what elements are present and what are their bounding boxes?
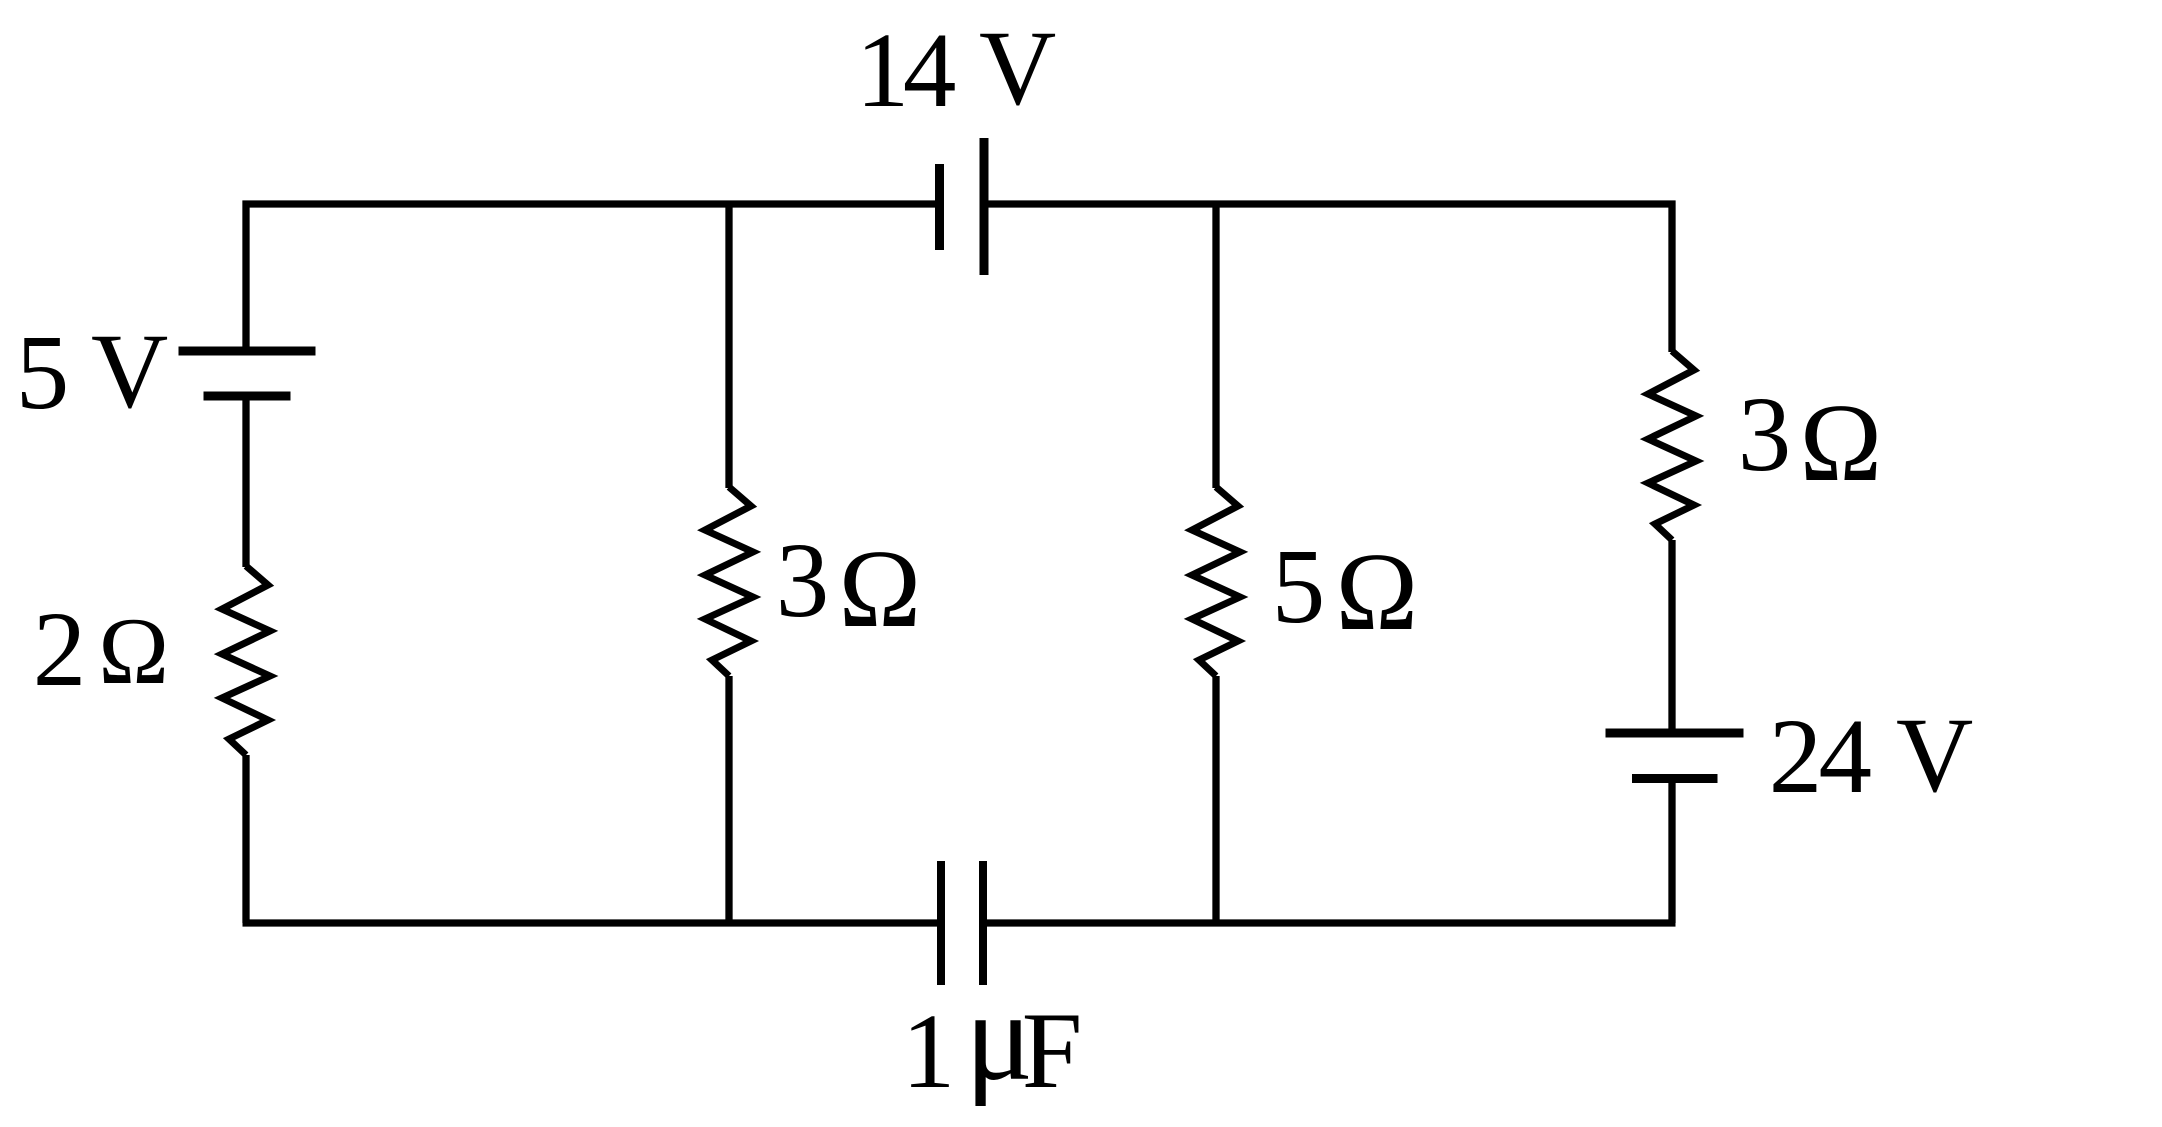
- label 5 V (left battery): [16, 313, 168, 432]
- resistor 3 ohm (middle-left branch): [705, 487, 753, 676]
- wire right middle (3-ohm resistor to 24V battery): [1668, 540, 1675, 733]
- resistor 3 ohm (right branch): [1648, 351, 1696, 540]
- svg-text:1: 1: [856, 12, 910, 130]
- wire middle-right branch upper (top wire to 5-ohm resistor): [1212, 204, 1219, 488]
- capacitor 1 uF : right plate: [979, 861, 987, 985]
- capacitor 1 uF : left plate: [937, 861, 945, 985]
- wire left middle (5V battery to 2-ohm resistor): [242, 396, 249, 567]
- label 1 uF (capacitor): [902, 967, 1083, 1111]
- wire middle-left branch lower (3-ohm resistor to bottom wire): [725, 676, 732, 923]
- svg-text:Ω: Ω: [839, 528, 922, 651]
- battery 5 V : long plate (top): [179, 347, 316, 356]
- wire top-right segment: [984, 200, 1676, 207]
- label 3 ohm (middle-left resistor): [776, 522, 921, 651]
- svg-text:5: 5: [1272, 528, 1326, 646]
- resistor 2 ohm (left branch): [222, 566, 270, 755]
- svg-text:4: 4: [1819, 698, 1873, 816]
- svg-text:2: 2: [1769, 698, 1823, 816]
- resistor 5 ohm (middle-right branch): [1192, 487, 1240, 676]
- battery 14 V : short plate (left): [935, 164, 944, 250]
- battery 24 V : long plate (top): [1606, 729, 1744, 738]
- wire right upper (corner to 3-ohm resistor): [1668, 201, 1675, 353]
- label 3 ohm (right resistor): [1738, 376, 1882, 505]
- svg-text:1: 1: [902, 993, 956, 1111]
- wire middle-right branch lower (5-ohm resistor to bottom wire): [1212, 676, 1219, 923]
- label 2 ohm (left resistor): [33, 591, 169, 709]
- wire right lower (24V battery to bottom corner): [1668, 779, 1675, 923]
- svg-text:V: V: [91, 313, 168, 431]
- wire top-left segment: [243, 200, 937, 207]
- label 14 V (top battery): [856, 10, 1057, 130]
- battery 5 V : short plate (bottom): [204, 392, 291, 401]
- svg-text:Ω: Ω: [1336, 531, 1419, 654]
- svg-text:4: 4: [903, 12, 957, 130]
- wire left upper (corner to 5V battery): [242, 201, 249, 352]
- battery 14 V : long plate (right): [980, 138, 989, 275]
- label 5 ohm (middle-right resistor): [1272, 528, 1418, 654]
- svg-text:3: 3: [1738, 376, 1792, 494]
- svg-text:V: V: [1896, 697, 1973, 815]
- svg-text:F: F: [1022, 990, 1083, 1111]
- svg-text:Ω: Ω: [1800, 382, 1883, 505]
- svg-text:5: 5: [16, 314, 70, 432]
- wire left lower (2-ohm resistor to bottom corner): [242, 755, 249, 923]
- wire bottom-left segment: [243, 919, 938, 926]
- wire bottom-right segment: [987, 919, 1676, 926]
- svg-text:2: 2: [33, 591, 87, 709]
- wire middle-left branch upper (top wire to 3-ohm resistor): [725, 204, 732, 488]
- svg-text:3: 3: [776, 522, 830, 640]
- svg-text:Ω: Ω: [98, 598, 169, 704]
- battery 24 V : short plate (bottom): [1632, 774, 1718, 783]
- svg-text:V: V: [979, 10, 1056, 128]
- label 24 V (right battery): [1769, 697, 1973, 816]
